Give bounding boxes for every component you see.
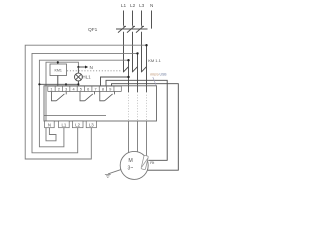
wire L2 drop to breaker: [132, 11, 134, 26]
svg-text:3~: 3~: [127, 166, 133, 172]
svg-text:5: 5: [80, 87, 82, 91]
stub to terminal 3: [65, 84, 67, 86]
thermistor Rt: [141, 155, 148, 169]
svg-text:7: 7: [95, 87, 97, 91]
breaker QF1 crossbar: [116, 28, 148, 30]
mains labels: [121, 3, 154, 8]
junction dot coil top: [57, 61, 59, 63]
wire pole3 into box: [146, 86, 148, 92]
svg-text:3: 3: [65, 87, 67, 91]
svg-text:4: 4: [72, 87, 74, 91]
svg-text:9: 9: [109, 87, 111, 91]
junction dot L2: [136, 52, 138, 54]
svg-text:L3: L3: [139, 3, 145, 8]
KM1 coil top lead: [57, 62, 59, 64]
wire pole3 lower to device: [146, 45, 148, 86]
motor M1: [120, 151, 148, 179]
svg-text:KM1: KM1: [55, 69, 62, 73]
internal divider: [44, 114, 106, 116]
wire L2 breaker to contactor: [132, 32, 134, 72]
wire N drop: [151, 11, 153, 29]
wire L3 drop to breaker: [141, 11, 143, 26]
wire pole2 into box: [137, 86, 139, 92]
contactor KM1.1 pole 3 arm: [141, 67, 146, 73]
relay contact B inside device: [80, 92, 95, 101]
wire terminal 8 to pole1: [101, 77, 129, 86]
relay contact C inside device: [100, 92, 115, 101]
loop wire N: [46, 62, 78, 141]
svg-text:L2: L2: [75, 122, 80, 127]
svg-text:KM 1.1: KM 1.1: [148, 58, 161, 63]
wire L1 breaker to contactor: [123, 32, 125, 72]
breaker QF1 pole 1: [118, 26, 126, 32]
bottom terminal L2: [72, 121, 83, 128]
KM1 coil bottom lead to terminal 2: [57, 76, 59, 87]
junction dot lamp lead: [77, 83, 79, 85]
leader micro USB: [153, 77, 157, 86]
svg-text:6: 6: [87, 87, 89, 91]
wire terminal 9 to Rt upper: [106, 80, 167, 160]
lamp HL1 bottom lead to terminal 5: [77, 81, 79, 86]
contactor KM1.1 pole 2 arm: [132, 67, 137, 73]
svg-text:QF1: QF1: [88, 27, 98, 33]
lamp HL1: [77, 67, 79, 73]
linkage dashed KM1 coil to KM1.1: [67, 70, 122, 72]
svg-text:L3: L3: [89, 122, 94, 127]
junction dot L1: [127, 59, 129, 61]
svg-text:N: N: [90, 65, 93, 70]
wire pole2 lower to device: [137, 53, 139, 86]
wire pole1 into box: [128, 86, 130, 92]
svg-text:M: M: [128, 158, 132, 164]
wire pole1 lower to device: [128, 60, 130, 86]
device box UBZ: [44, 86, 157, 121]
svg-text:1: 1: [50, 87, 52, 91]
junction dot on loop L1: [38, 83, 40, 85]
svg-text:L2: L2: [130, 3, 136, 8]
breaker QF1 pole 3: [136, 26, 144, 32]
KM1 coil box: [50, 64, 67, 76]
breaker QF1 pole 2: [127, 26, 135, 32]
svg-text:2: 2: [58, 87, 60, 91]
wire L3 breaker to contactor: [141, 32, 143, 72]
CT dashed line phase B: [137, 92, 139, 121]
svg-text:8: 8: [102, 87, 104, 91]
loop wire L1: [39, 60, 128, 147]
wire phase A to motor: [128, 121, 130, 153]
loop wire L2: [32, 53, 138, 152]
wire phase C to motor: [146, 121, 148, 158]
wire coil/lamp common: [39, 83, 78, 85]
CT dashed line phase C: [146, 92, 148, 121]
svg-text:L1: L1: [62, 122, 67, 127]
relay contact A inside device: [52, 92, 67, 101]
junction dot terminal 3 stub: [65, 83, 67, 85]
svg-text:N: N: [150, 3, 153, 8]
svg-text:L1: L1: [121, 3, 127, 8]
ground: [105, 174, 111, 177]
ground lead: [108, 170, 121, 174]
node arrow to N: [77, 66, 79, 68]
terminal strip 1-9: [48, 86, 122, 91]
loop wire L3 (bottom terminal L3 to mains L3): [25, 45, 146, 159]
contactor KM1.1 pole 1 arm: [123, 67, 128, 73]
bottom terminal L1: [59, 121, 70, 128]
wire L1 drop to breaker: [123, 11, 125, 26]
junction dot pole1: [127, 76, 129, 78]
wire terminal 10 to Rt lower: [112, 84, 179, 171]
svg-text:HL1: HL1: [82, 75, 91, 80]
svg-text:micro USB: micro USB: [150, 73, 167, 77]
bottom terminal L3: [86, 121, 96, 128]
svg-text:N: N: [48, 122, 51, 127]
CT dashed line phase A: [128, 92, 130, 121]
wire phase B to motor: [137, 121, 139, 152]
bottom terminal N: [45, 121, 55, 128]
junction dot L3: [145, 44, 147, 46]
